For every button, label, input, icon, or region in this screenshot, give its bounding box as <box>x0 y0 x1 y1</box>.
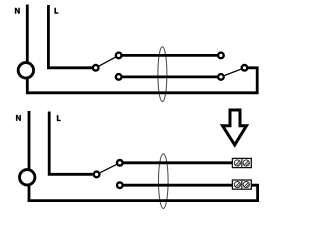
arrow: replace switch with connector blocks <box>223 110 247 145</box>
switch SW2 common terminal (top) <box>242 65 248 71</box>
node N (bottom) <box>16 115 21 121</box>
switch SW1 bottom contact (top) <box>116 74 122 80</box>
wire: lamp bottom to return (top) <box>26 78 29 94</box>
wire: SW2 common to return, right side and bottom return (top) <box>26 68 257 93</box>
node L (top) <box>54 8 58 14</box>
switch SW1 top contact (top) <box>116 53 122 59</box>
wire: lamp bottom to return (bottom) <box>28 185 31 202</box>
switch SW3 lever (bottom) <box>97 163 120 175</box>
wire: N feed vertical (top) <box>26 5 29 64</box>
wire: L feed vertical and horizontal to switch SW3 (bottom) <box>49 112 93 175</box>
wire: traveler top to connector block TB1 (bottom) <box>124 161 234 164</box>
node L (bottom) <box>57 115 61 121</box>
lamp LP1 (top) <box>18 63 33 78</box>
switch SW2 top contact (top) <box>218 53 224 59</box>
wire: traveler bottom (top) <box>122 76 217 79</box>
switch SW2 lever (top) <box>221 68 245 77</box>
wire: traveler bottom to connector block TB2 (bottom) <box>124 184 234 187</box>
wire: TB2 to return, right side and bottom return (bottom) <box>28 185 258 200</box>
node N (top) <box>15 8 20 14</box>
switch SW1 lever (top) <box>96 55 119 67</box>
lamp LP2 (bottom) <box>20 170 35 185</box>
switch SW3 common terminal (bottom) <box>94 172 100 178</box>
cable sheath ellipse (bottom circuit) <box>159 154 169 209</box>
connector block TB2 (bottom, switched live through) <box>232 180 251 189</box>
wire: traveler top (top) <box>122 54 217 57</box>
connector block TB1 (bottom, top traveler termination) <box>232 158 251 167</box>
switch SW1 common terminal (top) <box>93 65 99 71</box>
switch SW3 bottom contact (bottom) <box>117 182 123 188</box>
switch SW2 bottom contact (top) <box>218 74 224 80</box>
wire: L feed vertical and horizontal to switch SW1 (top) <box>48 5 92 68</box>
cable sheath ellipse (top circuit) <box>158 47 167 102</box>
wire: N feed vertical (bottom) <box>28 111 31 170</box>
switch SW3 top contact (bottom) <box>117 160 123 166</box>
